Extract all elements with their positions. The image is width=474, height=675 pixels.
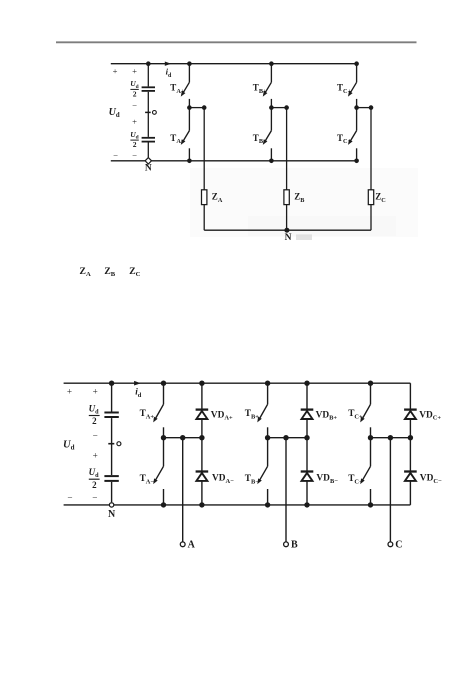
junction: D2 cap top on + rail — [109, 381, 114, 386]
wire: D2 diode leg C mid-lower segment — [409, 438, 411, 471]
wire: D2 output A stem — [182, 438, 184, 542]
wire: D2 diode leg A lower segment — [201, 481, 203, 505]
wire: D2 output B stem — [285, 438, 287, 542]
junction: D2 switch leg A top rail — [161, 381, 166, 386]
svg-text:2: 2 — [92, 480, 97, 490]
wire: D1 phase A midpoint link — [189, 107, 204, 109]
wire: D1 phase C load feeder — [370, 108, 372, 190]
wire: D2 phase C midpoint link — [371, 437, 411, 439]
wire: D2 diode leg C lower segment — [409, 481, 411, 505]
junction: D2 switch leg B top rail — [265, 381, 270, 386]
junction: D2 switch leg A bottom rail — [161, 502, 166, 507]
junction: D2 phase C midpoint at diode — [408, 435, 413, 440]
junction: D1 phase C output branch — [369, 105, 374, 110]
wire: D1 phase B load feeder — [286, 108, 288, 190]
junction: D2 diode leg B bottom rail — [304, 502, 309, 507]
junction: D1 phase B output branch — [284, 105, 289, 110]
wire: D1 bottom DC rail (-) — [111, 160, 357, 162]
svg-text:A: A — [188, 539, 196, 550]
diode VDB+ — [301, 410, 314, 419]
junction: D1 leg A bottom rail — [187, 159, 192, 164]
wire: D2 diode leg C upper segment — [409, 383, 411, 409]
junction: D1 leg B bottom rail — [269, 159, 274, 164]
switch TB- (D1 lower) — [263, 108, 272, 161]
svg-text:−: − — [113, 150, 118, 160]
node o (D2 capacitor midpoint tick) — [108, 443, 114, 445]
junction: D2 diode leg B top rail — [304, 381, 309, 386]
load ZC — [368, 190, 373, 205]
current arrow i_d (D1) — [165, 62, 171, 66]
transistor TB+ (D2 upper switch) — [257, 383, 267, 438]
junction: D1 leg C top rail — [354, 61, 359, 66]
wire: D2 bottom DC rail (-) — [64, 504, 411, 506]
svg-text:2: 2 — [92, 416, 97, 426]
wire: D2 diode leg A upper segment — [201, 383, 203, 409]
junction: D2 phase A midpoint at diode — [199, 435, 204, 440]
wire: D1 phase B midpoint link — [271, 107, 286, 109]
diode VDB- — [301, 472, 314, 481]
wire: D1 top DC rail (+) — [111, 63, 357, 65]
junction: D1 phase A midpoint — [187, 105, 192, 110]
wire: D2 diode leg B lower segment — [306, 481, 308, 505]
switch TB+ (D1 upper) — [263, 64, 272, 108]
wire: D1 capacitor branch upper segment — [147, 64, 149, 87]
wire: D2 top DC rail (+) — [64, 382, 411, 384]
svg-text:+: + — [67, 386, 72, 396]
svg-text:−: − — [132, 101, 137, 111]
svg-text:C: C — [395, 539, 402, 550]
svg-text:−: − — [93, 430, 98, 440]
svg-text:N: N — [108, 509, 116, 520]
wire: D2 output C stem — [389, 438, 391, 542]
svg-text:+: + — [113, 66, 118, 76]
terminal A (output) — [180, 542, 185, 547]
diode VDA- — [196, 472, 209, 481]
svg-text:−: − — [67, 493, 72, 503]
transistor TA- (D2 lower switch) — [153, 438, 163, 505]
switch TA- (D1 lower) — [181, 108, 190, 161]
junction: D2 diode leg A bottom rail — [199, 502, 204, 507]
load ZA — [202, 190, 207, 205]
junction: D2 switch leg C top rail — [368, 381, 373, 386]
wire: D1 phase A load feeder — [203, 108, 205, 190]
transistor TC- (D2 lower switch) — [360, 438, 370, 505]
wire: D2 capacitor branch middle segment — [111, 418, 113, 475]
terminal C (output) — [388, 542, 393, 547]
node o (D1 capacitor midpoint tick) — [145, 111, 151, 113]
junction: D1 cap top on + rail — [146, 61, 151, 66]
junction: D2 phase C output branch — [388, 435, 393, 440]
transistor TA+ (D2 upper switch) — [153, 383, 163, 438]
junction: D2 phase C midpoint at switch — [368, 435, 373, 440]
wire: D1 load ZB bottom lead — [286, 205, 288, 231]
junction: D1 leg A top rail — [187, 61, 192, 66]
junction: D2 phase A midpoint at switch — [161, 435, 166, 440]
switch TA+ (D1 upper) — [181, 64, 190, 108]
svg-text:+: + — [132, 66, 137, 76]
wire: D1 load ZC bottom lead — [370, 205, 372, 231]
diode VDA+ — [196, 410, 209, 419]
junction: D2 phase B midpoint at diode — [304, 435, 309, 440]
terminal B (output) — [284, 542, 289, 547]
diode VDC- — [404, 472, 417, 481]
transistor TC+ (D2 upper switch) — [360, 383, 370, 438]
junction: D1 phase B midpoint — [269, 105, 274, 110]
capacitor C1 (Ud/2 upper) — [142, 86, 155, 88]
diode VDC+ — [404, 410, 417, 419]
wire: D2 capacitor branch upper segment — [111, 383, 113, 411]
svg-text:−: − — [92, 493, 97, 503]
wire: D1 phase C midpoint link — [357, 107, 371, 109]
junction: D2 switch leg C bottom rail — [368, 502, 373, 507]
wire: D2 diode leg A mid-upper segment — [201, 419, 203, 438]
svg-text:2: 2 — [133, 89, 137, 98]
svg-text:N: N — [285, 233, 292, 243]
capacitor C3 (Ud/2 upper, D2) — [104, 412, 118, 414]
wire: D1 capacitor branch lower segment — [147, 143, 149, 158]
svg-text:−: − — [132, 150, 137, 160]
svg-text:B: B — [291, 539, 298, 550]
wire: D2 diode leg C mid-upper segment — [409, 419, 411, 438]
junction: D1 phase A output branch — [202, 105, 207, 110]
node N (D1 DC midpoint terminal, diamond) — [145, 158, 151, 164]
junction: D2 switch leg B bottom rail — [265, 502, 270, 507]
svg-text:+: + — [93, 386, 98, 396]
wire: D1 load neutral link N' — [204, 229, 371, 231]
wire: D2 phase B midpoint link — [268, 437, 307, 439]
wire: D1 load ZA bottom lead — [203, 205, 205, 231]
junction: node N' — [284, 228, 289, 233]
wire: D1 capacitor branch middle segment — [147, 92, 149, 137]
wire: D2 phase A midpoint link — [164, 437, 202, 439]
switch TC- (D1 lower) — [348, 108, 357, 161]
junction: D2 phase A output branch — [180, 435, 185, 440]
wire: D2 diode leg B mid-upper segment — [306, 419, 308, 438]
svg-text:+: + — [93, 451, 98, 461]
junction: D1 leg B top rail — [269, 61, 274, 66]
wire: D2 diode leg B upper segment — [306, 383, 308, 409]
junction: D2 phase B output branch — [283, 435, 288, 440]
node N (D2 DC midpoint terminal, circle) — [109, 503, 113, 507]
svg-text:N: N — [145, 163, 152, 173]
wire: D2 diode leg B mid-lower segment — [306, 438, 308, 471]
svg-text:+: + — [132, 117, 137, 127]
capacitor C4 (Ud/2 lower, D2) — [104, 475, 118, 477]
switch TC+ (D1 upper) — [348, 64, 357, 108]
load ZB — [284, 190, 289, 205]
capacitor C2 (Ud/2 lower) — [142, 137, 155, 139]
junction: D2 phase B midpoint at switch — [265, 435, 270, 440]
svg-text:2: 2 — [133, 140, 137, 149]
current arrow i_d (D2) — [134, 381, 141, 386]
transistor TB- (D2 lower switch) — [257, 438, 267, 505]
junction: D1 phase C midpoint — [354, 105, 359, 110]
wire: D2 capacitor branch lower segment — [111, 482, 113, 502]
junction: D1 leg C bottom rail — [354, 159, 359, 164]
wire: D2 diode leg A mid-lower segment — [201, 438, 203, 471]
junction: D2 diode leg A top rail — [199, 381, 204, 386]
